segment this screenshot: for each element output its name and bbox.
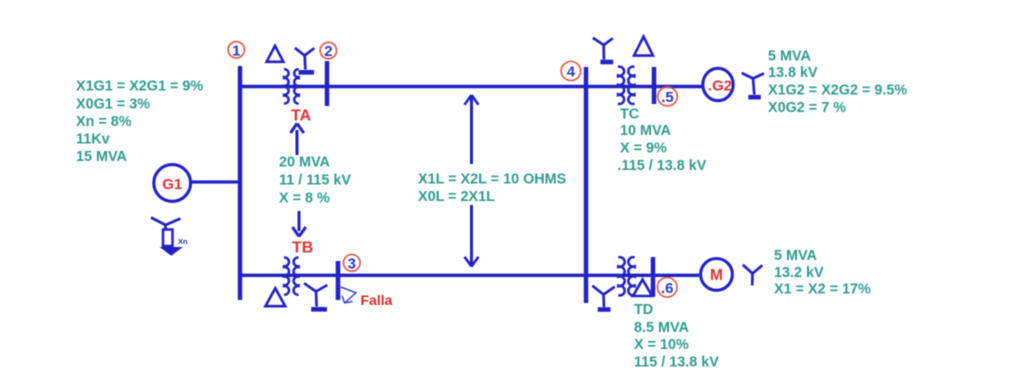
svg-text:G1: G1 — [162, 176, 182, 193]
svg-text:X1G1 = X2G1 = 9%: X1G1 = X2G1 = 9% — [76, 79, 203, 95]
wye (grounded) G2 — [742, 73, 764, 97]
svg-text:X0G1 = 3%: X0G1 = 3% — [76, 96, 150, 112]
svg-text:8.5 MVA: 8.5 MVA — [634, 320, 690, 336]
svg-text:X = 10%: X = 10% — [634, 337, 689, 353]
svg-text:X1G2 = X2G2 = 9.5%: X1G2 = X2G2 = 9.5% — [768, 83, 907, 99]
bus 3 — [336, 261, 341, 300]
svg-text:X1L = X2L = 10 OHMS: X1L = X2L = 10 OHMS — [418, 171, 567, 187]
svg-text:11Kv: 11Kv — [76, 132, 110, 148]
arrow down at TB — [293, 211, 306, 237]
svg-text:TC: TC — [620, 107, 639, 123]
svg-text:4: 4 — [567, 64, 576, 81]
bus 1 — [238, 66, 242, 300]
node 2 circle — [320, 42, 336, 58]
svg-text:13.2 kV: 13.2 kV — [774, 265, 824, 281]
wire: G1 to bus 1 — [192, 180, 240, 183]
svg-text:X0G2 = 7 %: X0G2 = 7 % — [768, 100, 846, 116]
transformer ratings text — [279, 155, 351, 207]
fault arrow — [341, 287, 356, 303]
svg-text:13.8 kV: 13.8 kV — [768, 65, 818, 81]
wye (grounded) TD — [592, 286, 615, 310]
wire: bottom horizontal bus1 to M — [240, 274, 699, 277]
svg-text:.6: .6 — [661, 280, 674, 297]
svg-text:10 MVA: 10 MVA — [620, 123, 672, 139]
transformer TB windings — [284, 258, 299, 295]
node 6 circle — [657, 278, 677, 298]
wye (grounded) TB — [304, 283, 327, 309]
svg-text:11 / 115 kV: 11 / 115 kV — [279, 172, 351, 188]
svg-text:115 / 13.8 kV: 115 / 13.8 kV — [634, 354, 719, 370]
G1 grounding wye with Xn reactor — [151, 218, 181, 247]
svg-text:TA: TA — [291, 108, 312, 125]
G1 parameters text — [76, 79, 203, 166]
motor M circle — [701, 259, 733, 291]
transformer TD windings — [618, 257, 634, 295]
delta TA — [267, 46, 284, 62]
wye M — [743, 265, 763, 286]
bus 6 — [651, 257, 656, 297]
svg-text:.115 / 13.8 kV: .115 / 13.8 kV — [618, 158, 707, 174]
svg-text:20 MVA: 20 MVA — [279, 155, 331, 171]
svg-text:TB: TB — [292, 240, 313, 257]
svg-text:X = 8 %: X = 8 % — [279, 190, 330, 206]
TC ratings text — [618, 107, 707, 174]
generator G2 circle — [703, 68, 733, 100]
svg-text:5 MVA: 5 MVA — [768, 49, 812, 65]
line impedance text — [418, 171, 567, 205]
svg-text:5 MVA: 5 MVA — [774, 248, 818, 264]
double arrow line impedance — [465, 95, 479, 267]
svg-text:X1 = X2 = 17%: X1 = X2 = 17% — [774, 281, 871, 297]
arrow up at TA — [291, 124, 304, 156]
svg-text:X = 9%: X = 9% — [620, 140, 667, 156]
wye (grounded) TA — [295, 48, 315, 73]
delta TC — [634, 37, 653, 56]
svg-text:1: 1 — [232, 42, 240, 59]
svg-text:Falla: Falla — [361, 292, 393, 308]
svg-text:TD: TD — [634, 302, 653, 318]
TD ratings text — [634, 302, 719, 371]
transformer TC windings — [618, 67, 634, 104]
wire: top horizontal bus1 to G2 — [240, 85, 702, 88]
bus 2 — [325, 61, 330, 106]
transformer TA windings — [284, 69, 299, 103]
bus 4 — [584, 67, 588, 303]
delta TD — [633, 280, 652, 297]
M parameters text — [774, 248, 871, 298]
G2 parameters text — [768, 49, 907, 116]
svg-text:.5: .5 — [661, 89, 674, 106]
delta TB — [265, 288, 285, 306]
node 1 circle — [228, 42, 244, 58]
generator G1 circle — [154, 165, 191, 202]
svg-text:.G2: .G2 — [708, 77, 732, 94]
svg-text:Xn = 8%: Xn = 8% — [76, 114, 132, 130]
svg-text:Xn: Xn — [178, 237, 188, 246]
node 5 circle — [658, 87, 678, 106]
svg-text:2: 2 — [324, 43, 332, 60]
bus 5 — [652, 67, 657, 104]
svg-text:M: M — [710, 267, 723, 284]
node 4 circle — [561, 62, 581, 81]
svg-text:X0L = 2X1L: X0L = 2X1L — [418, 189, 495, 205]
svg-text:15 MVA: 15 MVA — [76, 149, 128, 165]
svg-text:3: 3 — [348, 255, 356, 272]
node 3 circle — [344, 254, 361, 271]
wye (grounded) TC — [593, 38, 613, 62]
